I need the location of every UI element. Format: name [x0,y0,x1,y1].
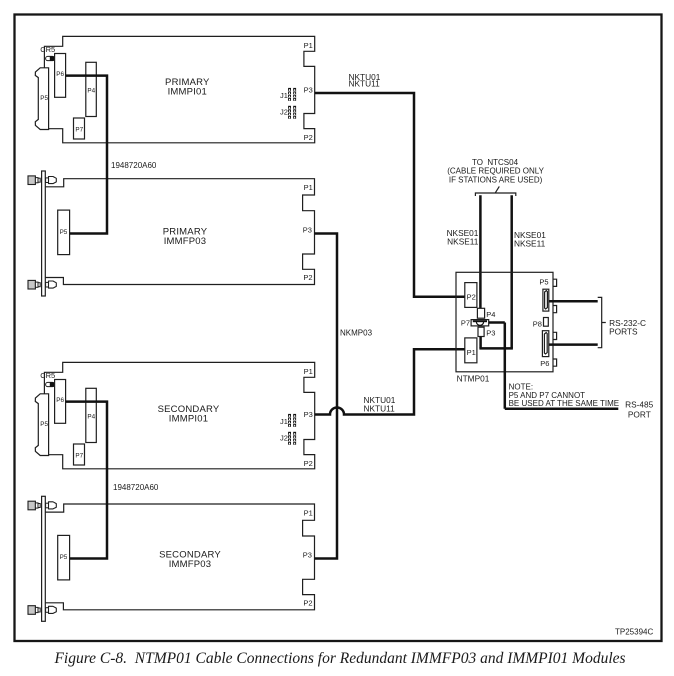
connector P6 (U1) [55,54,66,98]
mounting screw bottom (U2) [28,280,56,289]
svg-text:P3: P3 [303,551,312,560]
svg-text:IMMFP03: IMMFP03 [169,559,212,570]
svg-text:P1: P1 [304,508,313,517]
LED CR5 symbol (U3) [46,382,55,386]
svg-text:P1: P1 [304,41,313,50]
bracket to NTCS04 [475,186,515,196]
svg-text:P2: P2 [303,598,312,607]
connector P7 (U3) [74,444,85,465]
svg-text:P4: P4 [486,310,495,319]
connector P1 (NTMP01) [465,338,477,363]
wire junction bar [479,347,513,350]
tab notch 3 (NTMP01 right edge) [553,332,557,339]
connector P5 (U4) [58,535,70,580]
svg-text:P5: P5 [539,277,548,286]
svg-text:P2: P2 [303,273,312,282]
module U2 PRIMARY IMMFP03 outline [46,179,315,285]
mounting screw top (U2) [28,176,56,185]
svg-text:P3: P3 [303,225,312,234]
jumper J2 (U1) [280,106,296,119]
svg-text:P6: P6 [56,397,64,404]
connector P3 (NTMP01) [478,327,495,338]
svg-text:P6: P6 [56,71,64,78]
svg-text:NTMP01: NTMP01 [457,373,490,383]
svg-text:RS-485: RS-485 [625,400,654,410]
connector P5 (U2) [58,210,70,255]
label RS-232-C PORTS [609,318,646,336]
module U1 PRIMARY IMMPI01 outline [44,36,314,142]
label TO NTCS04 note [447,158,544,184]
module U3 SECONDARY IMMPI01 outline [44,362,314,468]
svg-text:P4: P4 [87,413,95,420]
faceplate bar (U2) [42,171,46,296]
svg-text:BE USED AT THE SAME TIME: BE USED AT THE SAME TIME [509,399,620,408]
svg-text:P5: P5 [60,554,68,561]
svg-text:IF STATIONS ARE USED): IF STATIONS ARE USED) [449,175,543,184]
svg-text:IMMPI01: IMMPI01 [168,86,207,97]
svg-text:NKTU11: NKTU11 [364,403,396,413]
svg-text:P3: P3 [486,329,495,338]
label NKSE01 NKSE11 (left) [447,228,479,247]
label SECONDARY IMMFP03 [159,550,221,571]
svg-text:Figure C-8. NTMP01 Cable Conn: Figure C-8. NTMP01 Cable Connections for… [53,650,625,667]
svg-text:P7: P7 [75,127,83,134]
svg-text:P5: P5 [40,95,48,102]
svg-text:TO NTCS04: TO NTCS04 [472,158,519,167]
wire RS-232 port P6 [549,343,598,346]
label NKTU01 NKTU11 (top) [349,72,381,89]
svg-text:IMMFP03: IMMFP03 [164,236,207,247]
svg-text:P1: P1 [467,348,476,357]
wire RS-232 port P5 [549,300,598,303]
label PRIMARY IMMPI01 [165,77,210,97]
wire 1948720A60 U3.P6 to U4.P5 [66,402,107,559]
connector P7 (U1) [74,118,85,139]
svg-text:CR5: CR5 [40,45,55,54]
module U4 SECONDARY IMMFP03 outline [46,504,315,610]
faceplate bar (U4) [42,496,46,621]
svg-text:J2: J2 [280,434,288,443]
label NOTE [509,383,620,408]
svg-text:P3: P3 [304,410,313,419]
label PRIMARY IMMFP03 [163,226,208,247]
svg-text:CR5: CR5 [40,371,55,380]
svg-text:P1: P1 [304,367,313,376]
svg-text:P2: P2 [467,293,476,302]
connector P6 (NTMP01 serial) [540,331,549,368]
connector P7 (NTMP01) [461,318,489,327]
tab notch 1 (NTMP01 right edge) [553,279,557,286]
label NKSE01 NKSE11 (right) [514,230,546,248]
svg-text:NKSE11: NKSE11 [447,236,479,246]
mounting screw bottom (U4) [28,606,56,615]
connector P5 (U1) [35,68,48,130]
wire P7 stub [489,321,505,324]
tab notch 2 (NTMP01 right edge) [553,306,557,313]
jumper J2 (U3) [280,432,296,445]
svg-text:J1: J1 [280,417,288,426]
svg-text:P4: P4 [87,87,95,94]
svg-text:P2: P2 [304,133,313,142]
connector P6 (U3) [55,380,66,424]
wire NKSE01/NKSE11 left to NTMP01.P4 [479,195,482,308]
jumper J1 (U3) [280,414,296,427]
svg-text:J2: J2 [280,108,288,117]
label NKTU01 NKTU11 (middle) [364,395,396,414]
svg-text:P7: P7 [461,318,470,327]
wire 1948720A60 U1.P6 to U2.P5 [66,76,107,234]
svg-text:P5: P5 [40,421,48,428]
wire P3 drop [479,337,482,349]
svg-text:P2: P2 [304,459,313,468]
wire RS-485 run [505,323,619,409]
svg-text:P6: P6 [540,359,549,368]
svg-text:P8: P8 [533,319,542,328]
LED CR5 symbol (U1) [46,56,55,60]
svg-text:1948720A60: 1948720A60 [113,483,159,492]
connector P5 (U3) [35,394,48,456]
wire NKSE01/NKSE11 right to NTMP01.P3 net [510,195,513,348]
svg-text:P1: P1 [304,183,313,192]
svg-text:NKSE11: NKSE11 [514,238,546,248]
label SECONDARY IMMPI01 [158,404,220,424]
svg-text:NKMP03: NKMP03 [340,328,373,337]
mounting screw top (U4) [28,501,56,510]
connector P4 (U1) [86,62,97,116]
svg-text:J1: J1 [280,91,288,100]
jumper J1 (U1) [280,88,296,101]
svg-text:P5: P5 [60,229,68,236]
wire NKMP03 U2.P3 to U4.P3 [315,234,338,559]
bracket RS-232-C ports [598,297,606,347]
connector P5 (NTMP01 serial) [539,277,548,311]
svg-text:TP25394C: TP25394C [615,627,653,636]
svg-text:PORT: PORT [628,410,651,420]
connector P4 (U3) [86,388,97,442]
connector P2 (NTMP01) [465,283,477,308]
tab notch 4 (NTMP01 right edge) [553,359,557,366]
terminal unit NTMP01 outline [456,272,553,372]
wire NKTU01/NKTU11 U1.P3 to NTMP01.P2 [315,93,465,297]
svg-text:1948720A60: 1948720A60 [111,161,157,170]
svg-text:PORTS: PORTS [609,326,638,336]
connector P8 (NTMP01) [533,318,549,329]
label RS-485 PORT [625,400,654,420]
connector P4 (NTMP01) [477,308,495,319]
wire NKTU01/NKTU11 U3.P3 to NTMP01.P1 (with hop over NKMP03) [315,349,465,414]
svg-text:P7: P7 [75,453,83,460]
svg-text:NKTU11: NKTU11 [349,79,381,89]
svg-text:IMMPI01: IMMPI01 [169,413,208,424]
svg-text:P3: P3 [304,85,313,94]
